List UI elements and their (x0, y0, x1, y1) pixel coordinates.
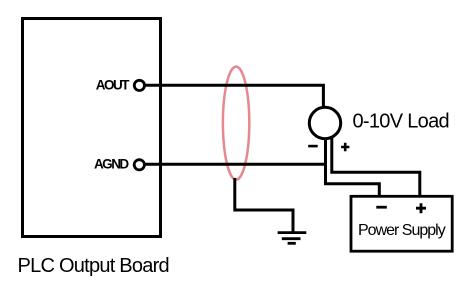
power supply minus sign (376, 206, 387, 209)
wire load minus to power supply minus (326, 138, 380, 196)
wire shield to ground (235, 178, 293, 232)
svg-text:PLC Output Board: PLC Output Board (18, 255, 169, 277)
ground symbol bar 3 (288, 242, 296, 245)
svg-text:Power Supply: Power Supply (358, 222, 446, 239)
power supply plus sign (416, 203, 426, 213)
power supply box (351, 196, 452, 251)
svg-text:AOUT: AOUT (96, 78, 130, 93)
shield ellipse (cable shield) (223, 67, 249, 180)
PLC output board box (23, 19, 161, 237)
load meter circle (309, 107, 340, 138)
svg-text:AGND: AGND (94, 157, 129, 172)
terminal AOUT (134, 80, 144, 90)
load plus sign (341, 143, 349, 151)
svg-text:0-10V Load: 0-10V Load (353, 111, 449, 133)
wire AOUT to load top (145, 85, 323, 107)
ground symbol bar 1 (278, 231, 307, 234)
wire AGND to minus node (145, 163, 326, 166)
ground symbol bar 2 (282, 237, 301, 240)
load minus sign (308, 145, 318, 148)
terminal AGND (134, 160, 144, 170)
wire load plus to power supply plus (332, 138, 420, 196)
